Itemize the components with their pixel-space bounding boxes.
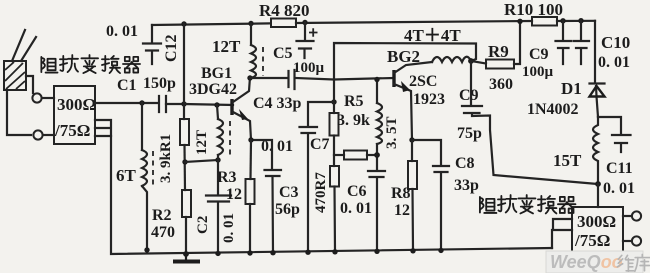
svg-text:C10: C10 — [601, 33, 630, 52]
capacitor C3 plates — [265, 170, 282, 176]
antenna terminal (hatched box) — [4, 61, 26, 90]
capacitor C9 100u (bypass) — [556, 21, 572, 64]
junction R6/3.5T — [374, 152, 380, 158]
inductor 4T+4T (collector coil) — [432, 57, 471, 62]
capacitor C4 plates — [289, 70, 295, 89]
capacitor C2 plates — [206, 196, 231, 202]
wire emitter branch to C3 — [251, 140, 272, 169]
wire C2 line — [217, 160, 219, 253]
svg-text:0. 01: 0. 01 — [340, 200, 372, 217]
svg-text:56p: 56p — [275, 201, 300, 218]
svg-text:C3: C3 — [279, 184, 299, 201]
C5 plus sign — [309, 28, 318, 36]
wire rail corner down to D1 — [595, 21, 598, 117]
wire input box to C1 — [95, 102, 157, 104]
svg-text:C9: C9 — [459, 87, 479, 104]
BG2 emitter arrow — [401, 81, 410, 92]
capacitor C5 (electrolytic) — [297, 23, 314, 59]
capacitor C9 75p plates — [462, 106, 482, 113]
resistor R3 — [246, 179, 255, 204]
inductor 12T (collector) — [251, 45, 256, 78]
svg-text:100µ: 100µ — [293, 60, 325, 76]
output terminal stub top — [623, 215, 632, 217]
wire R9 to rail riser — [514, 21, 520, 64]
wire base node line — [184, 104, 233, 105]
svg-text:0. 01: 0. 01 — [221, 213, 237, 243]
svg-text:BG1: BG1 — [201, 65, 232, 82]
node 12T tap — [214, 102, 219, 107]
svg-text:15T: 15T — [553, 151, 582, 170]
input terminal circle bottom — [33, 130, 42, 139]
input terminal circle top — [32, 93, 41, 102]
resistor R10 on rail — [532, 17, 557, 26]
resistor R2 — [182, 190, 191, 217]
rail junction dots — [144, 247, 149, 252]
resistor R4 on rail — [271, 19, 296, 28]
wire R8 to rail — [411, 189, 414, 250]
svg-text:3. 9kR1: 3. 9kR1 — [158, 134, 174, 183]
wire C9 to output network — [472, 114, 598, 184]
svg-text:/75Ω: /75Ω — [574, 231, 610, 250]
svg-text:4T＋4T: 4T＋4T — [404, 26, 461, 45]
wire 12T to C2 corner — [217, 155, 219, 160]
svg-text:33p: 33p — [454, 177, 479, 194]
wire 3.5T line top — [376, 80, 378, 104]
label 阻抗变换器 (top-left) — [41, 57, 57, 73]
svg-text:C1: C1 — [117, 77, 137, 94]
svg-text:3. 9k: 3. 9k — [337, 112, 370, 129]
transistor BG1 base bar — [230, 99, 233, 115]
wire R6 left lead — [334, 154, 344, 156]
output terminal circle top — [632, 211, 641, 220]
svg-text:2SC: 2SC — [409, 73, 437, 90]
junction 3.5T top — [374, 77, 379, 82]
node C10 tap — [578, 18, 583, 23]
svg-text:R9: R9 — [488, 42, 509, 61]
inductor 15T — [593, 117, 598, 184]
BG1 emitter arrow — [239, 109, 248, 120]
node collector — [247, 75, 252, 80]
capacitor C10 0.01 (bypass) — [574, 21, 590, 64]
node feedback corner / R5 line junction — [331, 99, 336, 104]
node C2 corner — [215, 157, 220, 162]
node collector coil top (on rail) — [248, 21, 253, 26]
svg-text:C8: C8 — [455, 155, 475, 172]
svg-text:R5: R5 — [344, 93, 364, 110]
wire R7 to rail — [333, 187, 336, 252]
resistor R6 (horizontal) — [344, 151, 367, 160]
BG2 collector lead — [394, 62, 432, 73]
label 阻抗变换器 (bottom-right) — [480, 197, 496, 213]
svg-text:3DG42: 3DG42 — [189, 81, 237, 98]
svg-text:360: 360 — [489, 76, 513, 93]
wire emitter node to R8 — [411, 140, 413, 161]
diode D1 — [590, 82, 605, 84]
svg-text:BG2: BG2 — [387, 47, 420, 66]
svg-text:0. 01: 0. 01 — [598, 54, 630, 71]
resistor R9 — [486, 60, 514, 69]
wire rail to 12T collector coil — [250, 24, 252, 46]
svg-text:C2: C2 — [195, 216, 211, 234]
wire R1 to node — [183, 145, 186, 190]
node C5 top — [302, 20, 307, 25]
resistor R7 — [330, 166, 339, 187]
output terminal stub bottom — [623, 240, 632, 242]
svg-text:75p: 75p — [457, 125, 482, 142]
node coil/R9/C9 — [468, 58, 474, 64]
node 15T bottom — [595, 181, 601, 187]
svg-text:12: 12 — [394, 202, 410, 219]
node R9 riser on rail — [517, 19, 522, 24]
svg-text:300Ω: 300Ω — [57, 95, 96, 114]
resistor R8 — [408, 161, 417, 189]
svg-text:R10 100: R10 100 — [504, 0, 563, 19]
svg-text:C7: C7 — [310, 136, 330, 153]
svg-text:470R7: 470R7 — [313, 172, 329, 213]
capacitor C1 plates — [159, 96, 166, 112]
impedance converter output box 300/75 — [572, 207, 623, 252]
wire C8 to rail — [440, 173, 442, 250]
watermark box — [546, 251, 643, 273]
capacitor C6 plates — [368, 171, 385, 177]
wire 6T to ground rail — [142, 186, 147, 250]
node emitter/C8 — [409, 137, 414, 142]
transistor BG2 base bar — [392, 70, 395, 87]
ground symbol — [185, 254, 187, 260]
wire into output box — [597, 184, 599, 207]
output terminal circle bottom — [632, 236, 641, 245]
capacitor C7 plates — [300, 127, 318, 133]
node C9 bypass tap — [560, 18, 565, 23]
6T core dashes — [152, 151, 154, 185]
top supply rail — [152, 21, 595, 25]
svg-text:1923: 1923 — [413, 91, 445, 108]
wire C4 to BG2 base — [295, 78, 393, 80]
svg-text:C6: C6 — [347, 183, 367, 200]
svg-text:12T: 12T — [194, 130, 210, 155]
wire R2 to rail — [185, 217, 187, 254]
wire 12T tap down — [217, 105, 218, 119]
node R1/R2 — [182, 159, 187, 164]
svg-text:6T: 6T — [116, 166, 137, 185]
feedback wire 4T+4T link top — [334, 43, 476, 80]
divider line top section — [183, 24, 185, 119]
capacitor C11 plates — [612, 135, 631, 152]
svg-text:12T: 12T — [212, 37, 241, 56]
svg-text:300Ω: 300Ω — [577, 212, 616, 231]
svg-text:C12: C12 — [163, 34, 180, 62]
svg-text:R8: R8 — [391, 185, 411, 202]
svg-text:C11: C11 — [606, 160, 633, 177]
svg-text:R2: R2 — [152, 207, 172, 224]
BG1 collector lead — [233, 77, 250, 102]
svg-text:12: 12 — [226, 186, 242, 203]
svg-text:C9: C9 — [529, 46, 549, 63]
wire C1 to divider line — [166, 103, 184, 105]
wire R6 right lead — [367, 154, 377, 156]
resistor R5 — [330, 113, 339, 136]
wire C7 to rail — [307, 134, 309, 253]
ground rail — [111, 136, 552, 254]
node 6T tap — [139, 100, 144, 105]
svg-text:WeeQoo: WeeQoo — [550, 252, 623, 272]
12T collector core dashes — [262, 47, 264, 76]
wire emitter to C8 — [412, 140, 441, 165]
BG2 emitter lead — [394, 84, 412, 140]
svg-text:0. 01: 0. 01 — [106, 23, 138, 40]
svg-text:C4 33p: C4 33p — [253, 95, 302, 112]
wire antenna to bottom input terminal — [7, 90, 31, 135]
svg-text:3. 5T: 3. 5T — [384, 116, 400, 149]
wire R5 to R6/R7 node — [333, 136, 335, 167]
svg-text:470: 470 — [151, 224, 175, 241]
svg-text:0. 01: 0. 01 — [603, 180, 635, 197]
svg-text:C5: C5 — [273, 45, 293, 62]
watermark 维库 — [617, 255, 633, 271]
svg-text:100µ: 100µ — [522, 64, 554, 80]
svg-text:R4 820: R4 820 — [259, 1, 310, 20]
capacitor C8 plates — [433, 166, 449, 172]
wire 6T tap down — [141, 103, 143, 150]
wire C3 to rail — [271, 177, 274, 253]
node C1/divider — [181, 101, 186, 106]
wire coil to R9 — [471, 61, 486, 64]
antenna feeder lines — [12, 30, 36, 61]
capacitor C12 stub and plates — [143, 25, 161, 64]
wire 3.5T to C6 — [376, 144, 378, 251]
inductor 3.5T — [377, 103, 382, 144]
wire R5 line down — [333, 80, 335, 114]
12T core dashes — [229, 121, 231, 157]
svg-text:D1: D1 — [561, 79, 582, 98]
BG1 emitter lead — [233, 112, 251, 140]
wire collector to C4 — [250, 77, 288, 79]
inductor 12T (input) — [218, 119, 223, 155]
impedance converter input box 300/75 — [54, 86, 95, 144]
wire C7 hook — [308, 102, 334, 126]
wire terminal to input box — [42, 97, 54, 99]
wire bias node to C2 corner — [185, 160, 218, 162]
wire node to C9(75p) — [470, 61, 472, 105]
svg-text:150p: 150p — [143, 75, 176, 92]
ladder taps on input box right — [95, 120, 111, 136]
node top of divider — [181, 21, 186, 26]
inductor 6T — [142, 150, 147, 186]
wire antenna to top input terminal — [26, 76, 33, 93]
output box left tie stubs — [552, 219, 572, 248]
wire emitter to R3 — [249, 140, 252, 179]
svg-text:/75Ω: /75Ω — [54, 121, 90, 140]
wire R3 to rail — [249, 204, 251, 253]
svg-text:1N4002: 1N4002 — [527, 101, 579, 118]
svg-text:R3: R3 — [217, 169, 237, 186]
wire terminal to input box lower — [43, 134, 54, 136]
node emitter/C3 — [248, 137, 253, 142]
resistor R1 — [180, 119, 189, 145]
wire corner to C11 — [598, 117, 621, 134]
